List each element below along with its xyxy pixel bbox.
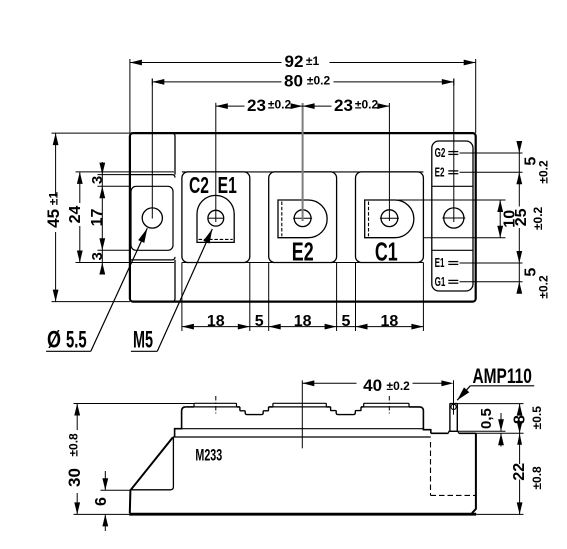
dimension 17 and 3 line bbox=[101, 162, 103, 275]
dimension 10 stub lines bbox=[396, 199, 506, 201]
module outline top view bbox=[130, 133, 476, 302]
svg-text:±1: ±1 bbox=[47, 192, 61, 206]
svg-text:18: 18 bbox=[381, 313, 399, 330]
dimension 23 +-0.2 left bbox=[216, 105, 245, 107]
side view lid right edge bbox=[409, 407, 431, 433]
svg-text:G1: G1 bbox=[435, 275, 446, 289]
left mounting hole bbox=[142, 208, 162, 228]
svg-text:G2: G2 bbox=[435, 146, 446, 160]
side view seam line lower bbox=[173, 436, 431, 438]
svg-text:M233: M233 bbox=[195, 445, 222, 464]
24 extension lines bbox=[76, 171, 130, 173]
svg-text:E2: E2 bbox=[292, 237, 314, 266]
svg-text:17: 17 bbox=[89, 209, 106, 227]
dimension 8 +-0.5 bbox=[457, 403, 523, 405]
dimension 23 +-0.2 right bbox=[303, 105, 332, 107]
svg-text:6: 6 bbox=[93, 497, 110, 506]
side view body outline bbox=[130, 437, 173, 513]
terminal pad 1 side view bbox=[194, 403, 237, 407]
80 extension overshoot bbox=[151, 79, 153, 86]
E1 leader line bbox=[460, 262, 523, 264]
dimension 6 bbox=[104, 471, 106, 490]
svg-text:24: 24 bbox=[67, 206, 84, 224]
svg-text:30: 30 bbox=[65, 468, 84, 487]
lid depression bottom edge across blocks bbox=[182, 262, 424, 264]
6 extension line bbox=[101, 489, 131, 491]
30 extension lines bbox=[74, 403, 195, 405]
tab dashed line E2 bbox=[281, 202, 283, 237]
hidden edges dashed side view bbox=[430, 442, 432, 495]
dimension 22 +-0.8 bbox=[519, 433, 521, 464]
AMP110 pin side view bbox=[450, 404, 457, 432]
pad 1 centerline bbox=[215, 396, 217, 414]
dimension 0.5 bbox=[459, 430, 506, 432]
right mounting hole bbox=[444, 208, 464, 228]
svg-text:23: 23 bbox=[247, 96, 266, 115]
terminal tab E2 D-shape bbox=[278, 200, 327, 238]
dimension 24 line bbox=[79, 172, 81, 203]
svg-text:0,5: 0,5 bbox=[478, 408, 495, 429]
8/22 extension lines right bbox=[476, 432, 524, 434]
svg-text:AMP110: AMP110 bbox=[473, 363, 532, 387]
extension line C1 center bbox=[388, 103, 390, 221]
side view left step profile bbox=[175, 407, 186, 437]
left mounting hole cell bbox=[131, 186, 173, 250]
svg-text:3: 3 bbox=[89, 252, 106, 260]
dimension 10 bbox=[499, 200, 501, 238]
svg-text:92: 92 bbox=[285, 52, 304, 71]
svg-text:5: 5 bbox=[522, 268, 539, 277]
left ear cutout edges bbox=[130, 171, 174, 173]
svg-text:18: 18 bbox=[207, 313, 225, 330]
lid depression top edge across blocks bbox=[182, 171, 424, 173]
screw circle E2 bbox=[294, 210, 311, 227]
extension line E2 center grey bbox=[302, 103, 304, 221]
svg-text:±0.2: ±0.2 bbox=[387, 379, 411, 393]
svg-text:5: 5 bbox=[342, 313, 351, 330]
terminal pad 3 side view bbox=[364, 403, 409, 407]
G1 leader line bbox=[460, 281, 523, 283]
side view wedge inner edges bbox=[130, 437, 173, 490]
dimension row 18-5-18-5-18 bbox=[182, 326, 424, 328]
tab dashed line C2/E1 bbox=[199, 238, 233, 240]
svg-text:E1: E1 bbox=[435, 256, 445, 270]
pin base seat bbox=[448, 431, 458, 433]
side view right edge bbox=[472, 433, 476, 513]
lid center left edge bbox=[172, 133, 175, 175]
pad 3 centerline bbox=[388, 396, 390, 414]
svg-text:22: 22 bbox=[511, 463, 528, 481]
extension line C2/E1 center bbox=[215, 103, 217, 222]
svg-text:25: 25 bbox=[513, 208, 530, 226]
pin hole bbox=[451, 404, 456, 409]
screw circle C2/E1 bbox=[208, 210, 224, 226]
svg-text:Ø: Ø bbox=[47, 327, 61, 353]
dimension 92 +-1 bbox=[130, 62, 282, 64]
svg-text:±0.2: ±0.2 bbox=[355, 98, 379, 112]
gate strip surface side view bbox=[431, 432, 449, 434]
svg-text:±0.2: ±0.2 bbox=[537, 275, 551, 299]
svg-text:C2: C2 bbox=[189, 173, 209, 199]
tab dashed line C1 bbox=[368, 202, 370, 237]
svg-text:±0.2: ±0.2 bbox=[268, 98, 292, 112]
svg-text:M5: M5 bbox=[133, 327, 153, 354]
svg-text:8: 8 bbox=[512, 415, 529, 424]
svg-text:23: 23 bbox=[334, 96, 353, 115]
terminal pad 2 side view bbox=[273, 403, 326, 407]
3/17 extension lines bbox=[98, 174, 130, 176]
notch 2 bbox=[331, 407, 361, 415]
svg-text:±0.2: ±0.2 bbox=[531, 206, 545, 230]
svg-text:18: 18 bbox=[294, 313, 312, 330]
svg-text:±0.8: ±0.8 bbox=[67, 433, 81, 457]
dimension 30 +-0.8 bbox=[76, 404, 78, 431]
terminal tab C2/E1 arch bbox=[197, 195, 234, 242]
strip divider upper bbox=[432, 185, 473, 187]
45 extension lines bbox=[52, 132, 130, 134]
AMP110 leader bbox=[457, 386, 470, 400]
right dim column 5/25/5 bbox=[518, 144, 520, 207]
svg-text:40: 40 bbox=[363, 376, 382, 395]
svg-text:80: 80 bbox=[284, 72, 303, 91]
left hole centerline bbox=[151, 79, 153, 219]
right hole centerline bbox=[453, 79, 455, 223]
40 extension centerline bbox=[301, 380, 303, 448]
terminal block C1 bbox=[356, 172, 424, 263]
dimension 80 +-0.2 bbox=[152, 81, 281, 83]
svg-text:5.5: 5.5 bbox=[66, 327, 87, 353]
svg-text:E2: E2 bbox=[435, 166, 445, 180]
E2 leader line bbox=[460, 171, 523, 173]
terminal tab C1 D-shape bbox=[365, 200, 414, 238]
svg-text:±0.5: ±0.5 bbox=[530, 406, 544, 430]
92 extension lines bbox=[129, 59, 131, 133]
terminal block E2 bbox=[269, 172, 337, 263]
svg-text:45: 45 bbox=[44, 209, 63, 228]
svg-text:3: 3 bbox=[89, 176, 106, 184]
gate terminal strip bbox=[432, 141, 473, 291]
18/5 extension lines bbox=[181, 263, 183, 332]
screw circle C1 bbox=[381, 210, 398, 227]
strip divider lower bbox=[432, 249, 473, 251]
terminal block C2/E1 bbox=[182, 172, 250, 263]
svg-text:±0.2: ±0.2 bbox=[537, 160, 551, 184]
dimension 40 +-0.2 bbox=[302, 382, 356, 384]
baseplate bottom edge bbox=[129, 513, 476, 516]
svg-text:5: 5 bbox=[255, 313, 264, 330]
G2 leader line bbox=[460, 152, 523, 154]
svg-text:±0.8: ±0.8 bbox=[530, 466, 544, 490]
side view lid top surface bbox=[186, 406, 194, 408]
pin centerline bbox=[453, 380, 455, 414]
svg-text:E1: E1 bbox=[218, 173, 237, 199]
svg-text:±0.2: ±0.2 bbox=[307, 73, 331, 87]
svg-text:±1: ±1 bbox=[306, 54, 320, 68]
svg-text:C1: C1 bbox=[375, 237, 398, 266]
side view seam line upper bbox=[175, 428, 424, 430]
notch 1 bbox=[240, 407, 269, 415]
dimension 45 +-1 line bbox=[55, 133, 57, 196]
